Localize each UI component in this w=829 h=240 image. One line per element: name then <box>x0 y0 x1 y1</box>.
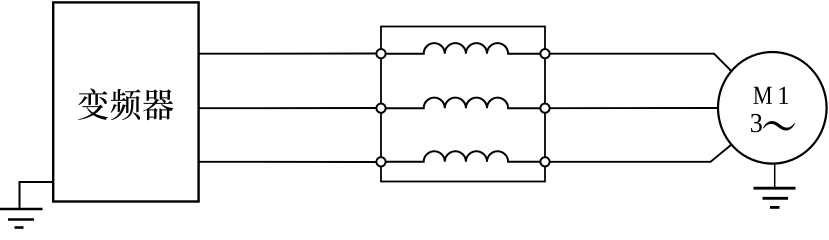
wire motor to ground stem <box>774 160 776 188</box>
terminal circle right V <box>540 104 549 113</box>
wire V phase inverter to reactor <box>199 107 382 109</box>
label text char pin of 变频器 <box>111 89 141 120</box>
terminal circle right U <box>540 49 549 58</box>
terminal circle left W <box>376 157 385 166</box>
wire U phase inverter to reactor <box>199 53 382 55</box>
inductor L1a <box>386 43 540 54</box>
inductor L1b <box>386 98 540 109</box>
wire U phase reactor to motor <box>550 54 734 74</box>
inverter box U1 <box>53 2 198 201</box>
wire W phase inverter to reactor <box>199 161 382 163</box>
motor M1 circle <box>718 52 827 164</box>
terminal circle right W <box>540 157 549 166</box>
wire V phase reactor to motor <box>550 107 721 109</box>
motor label letter M <box>753 87 771 104</box>
motor label digit 3 <box>751 114 762 132</box>
terminal circle left V <box>376 104 385 113</box>
motor label digit 1 <box>779 87 788 104</box>
label text char qi of 变频器 <box>143 89 173 120</box>
output reactor box L1 <box>381 27 545 182</box>
wire inverter to left ground <box>20 182 54 209</box>
wire W phase reactor to motor <box>550 143 734 162</box>
inductor L1c <box>386 151 540 162</box>
ground symbol left PE <box>0 209 43 228</box>
terminal circle left U <box>376 49 385 58</box>
label text char bian of 变频器 <box>78 88 108 120</box>
ground symbol under motor <box>754 188 796 207</box>
motor label tilde <box>763 121 795 131</box>
